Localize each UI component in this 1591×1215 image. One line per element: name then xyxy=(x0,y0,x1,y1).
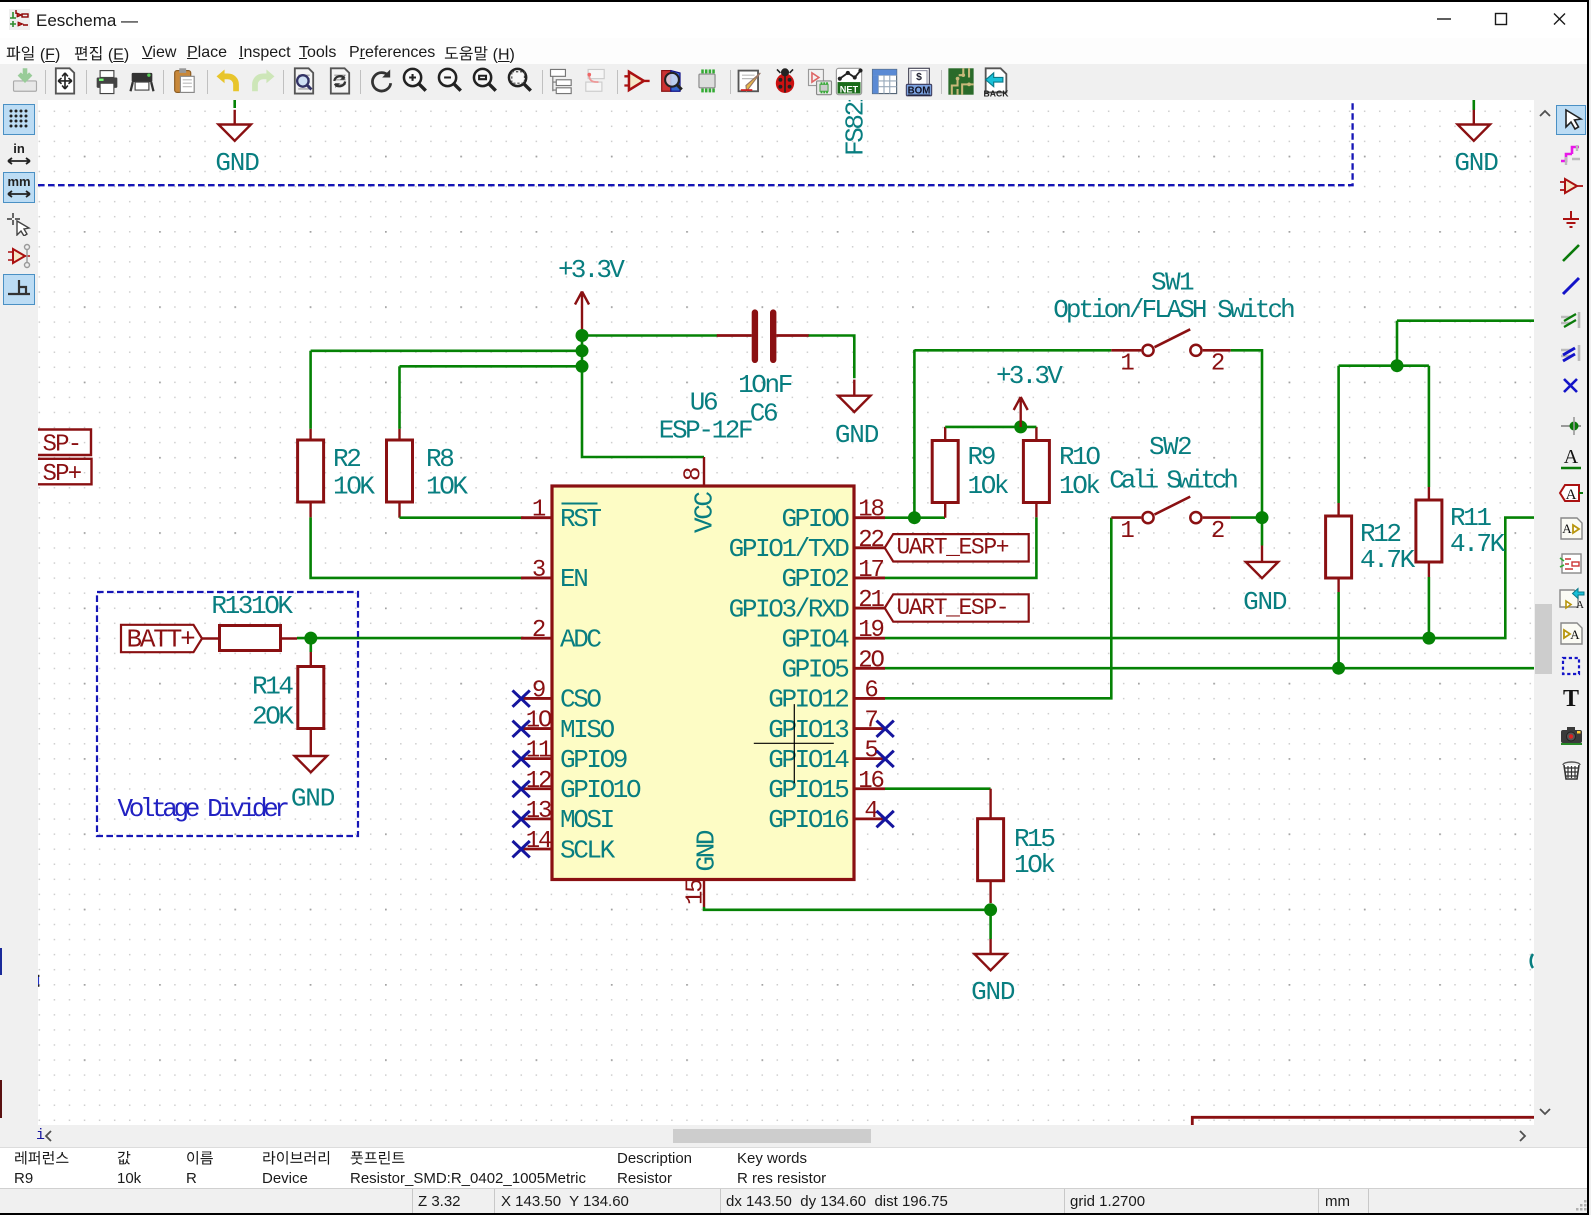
wire SW2 pin2 to GND node xyxy=(1231,516,1262,519)
pin 15 GND xyxy=(683,830,722,907)
svg-text:GPIO4: GPIO4 xyxy=(781,624,849,654)
svg-text:GND: GND xyxy=(1243,587,1287,617)
resistor R12 4.7K xyxy=(1326,503,1416,668)
svg-text:R1O: R1O xyxy=(1059,442,1100,472)
svg-text:8: 8 xyxy=(681,468,708,481)
cursor crosshair xyxy=(754,704,834,783)
junction R13/R14 node xyxy=(304,632,317,645)
resistor R9 10k xyxy=(932,427,1009,518)
svg-text:GND: GND xyxy=(971,977,1015,1007)
svg-text:GPIO9: GPIO9 xyxy=(560,745,627,775)
svg-text:2: 2 xyxy=(1211,351,1224,378)
global label UART_ESP+ xyxy=(885,534,1029,561)
svg-text:SCLK: SCLK xyxy=(560,835,616,865)
junction GPIO4/R11 xyxy=(1422,632,1435,645)
svg-text:Voltage Divider: Voltage Divider xyxy=(118,794,289,824)
svg-text:MOSI: MOSI xyxy=(560,805,614,835)
svg-text:1: 1 xyxy=(1120,518,1134,545)
wire R13 to ADC pin 2 xyxy=(297,637,523,640)
svg-text:ESP-12F: ESP-12F xyxy=(659,416,752,446)
resistor R10 10k xyxy=(1023,427,1100,518)
svg-text:6: 6 xyxy=(864,677,877,704)
svg-text:Option/FLASH Switch: Option/FLASH Switch xyxy=(1053,295,1294,325)
svg-text:A: A xyxy=(1562,521,1572,536)
resistor R13 10K xyxy=(202,591,297,651)
svg-text:+3.3V: +3.3V xyxy=(996,361,1063,391)
wire GPIO5 pin20 net xyxy=(885,667,1534,670)
svg-text:GPIO1O: GPIO1O xyxy=(560,775,641,805)
power port GND (C6) xyxy=(835,380,879,450)
power port GND (R15) xyxy=(971,939,1015,1007)
svg-text:22: 22 xyxy=(858,527,883,554)
pin 12 GPIO10 xyxy=(513,768,642,805)
svg-text:9: 9 xyxy=(532,677,545,704)
svg-text:mm: mm xyxy=(7,174,30,189)
svg-text:1OnF: 1OnF xyxy=(738,370,792,400)
svg-text:GPIOO: GPIOO xyxy=(781,504,849,534)
wire junction to GND xyxy=(989,910,992,939)
svg-text:BACK: BACK xyxy=(984,88,1010,97)
wire +3.3V net vertical to VCC pin 8 xyxy=(582,336,704,458)
svg-text:21: 21 xyxy=(858,587,884,614)
clipped teal text right edge xyxy=(1531,954,1533,968)
svg-text:A: A xyxy=(1566,487,1577,503)
pin 3 EN xyxy=(521,557,587,594)
pin 16 GPIO15 xyxy=(768,768,885,805)
capacitor C6 10nF xyxy=(717,313,809,429)
voltage divider group box xyxy=(97,592,358,836)
IC U6 ESP-12F xyxy=(552,486,854,880)
svg-text:T: T xyxy=(1563,686,1579,712)
pin 4 GPIO16 xyxy=(768,798,894,835)
svg-text:SW1: SW1 xyxy=(1151,268,1194,298)
svg-text:GPIO3/RXD: GPIO3/RXD xyxy=(729,594,850,624)
power port +3.3V (right) xyxy=(996,361,1063,427)
svg-text:A: A xyxy=(1570,627,1580,642)
wire R11/R12 top net xyxy=(1397,319,1534,322)
junction node +3.3V/C6 xyxy=(576,329,589,342)
pin 19 GPIO4 xyxy=(781,617,885,654)
pin 6 GPIO12 xyxy=(768,677,885,714)
pin 9 CS0 xyxy=(513,677,602,714)
svg-text:2O: 2O xyxy=(858,647,884,674)
svg-text:R14: R14 xyxy=(252,672,293,702)
svg-text:15: 15 xyxy=(683,880,710,905)
power port +3.3V (left) xyxy=(558,255,625,336)
pin 10 MISO xyxy=(513,708,615,745)
svg-text:1Ok: 1Ok xyxy=(1059,471,1100,501)
junction R11/R12 net xyxy=(1391,359,1404,372)
pin 14 SCLK xyxy=(513,828,616,865)
pin 8 VCC xyxy=(681,457,720,533)
svg-text:5: 5 xyxy=(864,738,877,765)
svg-text:1: 1 xyxy=(532,497,546,524)
svg-text:ADC: ADC xyxy=(560,624,601,654)
svg-text:2OK: 2OK xyxy=(252,702,294,732)
svg-text:GPIO5: GPIO5 xyxy=(781,655,848,685)
svg-text:18: 18 xyxy=(858,497,883,524)
svg-text:16: 16 xyxy=(858,768,883,795)
svg-text:SP+: SP+ xyxy=(43,461,82,488)
pin 13 MOSI xyxy=(513,798,614,835)
wire GND pin15 to R15 bottom xyxy=(704,907,991,910)
pin 17 GPIO2 xyxy=(781,557,885,594)
svg-text:1: 1 xyxy=(1120,351,1134,378)
svg-text:GPIO14: GPIO14 xyxy=(768,745,849,775)
pin 11 GPIO9 xyxy=(513,738,627,775)
wire GPIO4 pin19 net xyxy=(885,518,1534,639)
svg-text:GND: GND xyxy=(835,420,879,450)
svg-text:UART_ESP+: UART_ESP+ xyxy=(897,535,1009,561)
svg-text:GND: GND xyxy=(692,830,722,871)
svg-text:UART_ESP-: UART_ESP- xyxy=(897,595,1009,621)
svg-text:BOM: BOM xyxy=(908,86,931,97)
global label SP+ xyxy=(38,459,92,488)
wire +3.3V net to R2 top xyxy=(311,349,582,352)
resistor R14 20K xyxy=(252,638,324,756)
svg-text:4.7K: 4.7K xyxy=(1450,529,1506,559)
junction SW/GND node xyxy=(1256,511,1269,524)
svg-text:R8: R8 xyxy=(426,444,453,474)
svg-text:CSO: CSO xyxy=(560,685,601,715)
resistor R15 10k xyxy=(978,789,1056,903)
pin 20 GPIO5 xyxy=(781,647,885,684)
svg-text:$: $ xyxy=(916,72,922,83)
svg-text:SP-: SP- xyxy=(43,432,81,459)
resistor R8 10K xyxy=(387,429,469,518)
svg-text:C6: C6 xyxy=(750,399,777,429)
svg-text:19: 19 xyxy=(858,617,883,644)
svg-text:+3.3V: +3.3V xyxy=(558,255,625,285)
svg-text:GPIO2: GPIO2 xyxy=(781,564,848,594)
svg-text:Cali Switch: Cali Switch xyxy=(1109,466,1237,496)
wire R8 to RST pin 1 xyxy=(400,516,524,519)
svg-text:FS8211: FS8211 xyxy=(841,100,871,156)
svg-text:3: 3 xyxy=(532,557,545,584)
svg-text:1OK: 1OK xyxy=(333,472,375,502)
svg-text:BATT+: BATT+ xyxy=(127,625,196,655)
svg-text:A: A xyxy=(1576,599,1584,611)
pin 21 GPIO3/RXD xyxy=(729,587,885,624)
wire R2 to EN pin 3 xyxy=(311,517,524,578)
switch SW1 Option/FLASH xyxy=(1053,268,1294,378)
svg-text:4.7K: 4.7K xyxy=(1360,545,1416,575)
svg-text:GND: GND xyxy=(1454,148,1498,178)
pin 7 GPIO13 xyxy=(768,708,894,745)
global label SP- xyxy=(38,430,91,459)
svg-text:U6: U6 xyxy=(690,388,717,418)
svg-text:GPIO1/TXD: GPIO1/TXD xyxy=(729,534,850,564)
svg-text:GND: GND xyxy=(215,148,259,178)
svg-text:NET: NET xyxy=(840,84,859,94)
junction +3.3V right xyxy=(1014,420,1027,433)
svg-text:GPIO12: GPIO12 xyxy=(768,685,848,715)
wire GPIO15 pin16 to R15 xyxy=(885,787,991,790)
wire SW1 pin2 to GND riser xyxy=(1231,350,1262,545)
resistor R11 4.7K xyxy=(1416,487,1506,638)
power port GND top-right xyxy=(1454,100,1498,178)
svg-text:2: 2 xyxy=(532,617,545,644)
svg-text:1Ok: 1Ok xyxy=(968,471,1009,501)
junction R15/GND xyxy=(984,903,997,916)
global label BATT+ xyxy=(121,625,202,655)
svg-text:SW2: SW2 xyxy=(1149,432,1191,462)
wire +3.3V right node xyxy=(945,426,1036,429)
junction GPIO5/R12 xyxy=(1332,662,1345,675)
clipped bus fragment left edge xyxy=(36,977,39,986)
svg-text:2: 2 xyxy=(1211,518,1224,545)
svg-text:GPIO16: GPIO16 xyxy=(768,805,848,835)
switch SW2 Cali Switch xyxy=(1109,432,1237,545)
svg-text:RST: RST xyxy=(560,504,601,534)
global label UART_ESP- xyxy=(885,594,1029,621)
svg-text:R2: R2 xyxy=(333,444,360,474)
svg-text:GPIO13: GPIO13 xyxy=(768,715,848,745)
wire +3.3V net to R8 top xyxy=(400,365,583,368)
svg-text:MISO: MISO xyxy=(560,715,615,745)
wire C6 to GND xyxy=(809,336,855,379)
svg-text:VCC: VCC xyxy=(690,492,720,533)
svg-text:R9: R9 xyxy=(968,442,995,472)
svg-text:R131OK: R131OK xyxy=(211,591,293,621)
svg-text:1Ok: 1Ok xyxy=(1014,850,1055,880)
pin 22 GPIO1/TXD xyxy=(729,527,885,564)
wire R10 to GPIO2 pin17 xyxy=(885,517,1036,578)
power port GND top-left xyxy=(215,100,259,178)
pin 1 RST xyxy=(521,497,601,534)
svg-text:in: in xyxy=(13,141,25,156)
wire GPIO0 pin18 to R9 and SW1 riser xyxy=(885,516,945,519)
wire +3.3V net to C6 left xyxy=(588,334,718,337)
svg-text:1OK: 1OK xyxy=(426,472,468,502)
power port GND (SW) xyxy=(1243,546,1287,618)
svg-text:7: 7 xyxy=(864,708,877,735)
wire GPIO0 to SW1 pin1 xyxy=(914,349,1111,352)
power port GND (R14) xyxy=(291,756,335,814)
wire GPIO12 pin6 to SW2 pin1 xyxy=(885,518,1111,699)
svg-text:A: A xyxy=(1564,446,1579,468)
pin 18 GPIO0 xyxy=(781,497,885,534)
svg-text:GPIO15: GPIO15 xyxy=(768,775,848,805)
junction GPIO0 node xyxy=(908,511,921,524)
pin 2 ADC xyxy=(521,617,601,654)
svg-text:GND: GND xyxy=(291,784,335,814)
sheet boundary dashed line xyxy=(38,100,1353,185)
sheet outline bottom-right xyxy=(1192,1117,1534,1125)
svg-text:17: 17 xyxy=(858,557,883,584)
svg-text:EN: EN xyxy=(560,564,587,594)
resistor R2 10K xyxy=(298,429,376,518)
pin 5 GPIO14 xyxy=(768,738,894,775)
